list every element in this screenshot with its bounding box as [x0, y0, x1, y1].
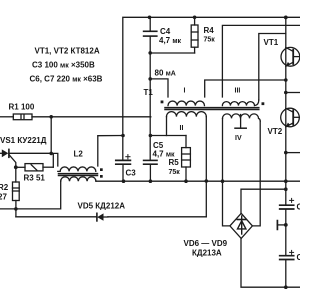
wire top rail	[123, 17, 300, 160]
node output tap	[284, 223, 288, 227]
svg-text:I: I	[184, 88, 186, 95]
svg-text:VT2: VT2	[268, 127, 283, 136]
resistor R1	[0, 114, 151, 120]
capacitor C6	[280, 205, 294, 255]
label C5 value	[153, 141, 176, 159]
capacitor C3	[116, 160, 131, 181]
node C5 bottom	[149, 179, 153, 183]
thyristor VS1	[0, 149, 51, 157]
svg-text:C4: C4	[160, 27, 171, 36]
svg-text:VT1: VT1	[264, 38, 279, 47]
node C4 top	[148, 15, 152, 19]
svg-text:R1 100: R1 100	[9, 103, 35, 112]
svg-text:VD6 — VD9: VD6 — VD9	[184, 239, 228, 248]
node winding II lead on output wire	[205, 179, 209, 183]
wire winding III right to rail	[259, 34, 286, 101]
label R2 value	[0, 183, 9, 202]
transistor VT1	[281, 47, 300, 66]
svg-text:C: C	[297, 203, 301, 212]
svg-text:C3 100 мк ×350В: C3 100 мк ×350В	[32, 61, 95, 70]
svg-text:C3: C3	[126, 169, 137, 178]
inductor L2 primary winding	[58, 167, 96, 171]
svg-text:VT1, VT2 КТ812А: VT1, VT2 КТ812А	[35, 47, 100, 56]
node C5 branch	[149, 134, 153, 138]
svg-text:VD5 КД212А: VD5 КД212А	[78, 201, 126, 210]
wire winding IV left lead to bridge	[223, 118, 230, 225]
svg-text:II: II	[180, 125, 184, 132]
wire winding II left lead	[166, 117, 168, 136]
transformer T1 winding III	[222, 100, 258, 106]
wire winding I feed	[150, 53, 168, 97]
node R5 bottom	[184, 179, 188, 183]
svg-text:R5: R5	[169, 158, 180, 167]
svg-text:R3 51: R3 51	[24, 173, 46, 182]
wire winding II right lead	[205, 117, 207, 217]
wire exit y92	[286, 92, 300, 94]
svg-text:75к: 75к	[169, 169, 181, 176]
wire thyristor gate	[9, 155, 16, 168]
svg-text:4,7 мк: 4,7 мк	[153, 149, 176, 158]
resistor R2	[13, 167, 20, 217]
svg-text:L2: L2	[74, 149, 84, 158]
node bottom rail C7	[284, 285, 288, 289]
wire C3 branch to L2	[98, 135, 123, 137]
svg-text:R4: R4	[204, 26, 215, 35]
svg-text:80 мА: 80 мА	[155, 69, 176, 78]
core L2	[59, 173, 98, 175]
svg-text:IV: IV	[235, 135, 242, 142]
wire winding I right to rail	[205, 80, 286, 97]
node C4 bottom	[148, 51, 152, 55]
node output wire at rail	[284, 179, 288, 183]
resistor R4	[191, 17, 198, 53]
inductor L2 secondary winding	[61, 177, 96, 181]
wire C4 to R4	[150, 52, 194, 54]
svg-text:R2: R2	[0, 183, 9, 192]
node C3 bottom	[122, 179, 126, 183]
node wire exit y92	[284, 91, 288, 95]
ground core tap under winding IV	[235, 115, 246, 129]
wire winding III left to right edge	[222, 25, 300, 97]
node R4 top	[193, 15, 197, 19]
notes text block	[30, 47, 103, 84]
svg-text:T1: T1	[144, 88, 154, 97]
wire R1 node down to thyristor node	[50, 117, 52, 154]
node R1 branch	[49, 115, 53, 119]
svg-text:VS1 КУ221Д: VS1 КУ221Д	[0, 136, 47, 145]
wire bridge plus output	[241, 189, 286, 213]
svg-text:27: 27	[0, 193, 7, 202]
node gate R2 R3	[14, 165, 18, 169]
wire VD5 line	[16, 216, 96, 218]
diode bridge VD6-VD9	[230, 213, 253, 238]
label C6 plus	[290, 198, 294, 202]
label C4 value	[159, 27, 182, 45]
svg-text:C6, C7 220 мк ×63В: C6, C7 220 мк ×63В	[30, 75, 103, 84]
terminal output tap	[277, 221, 285, 230]
resistor R3	[16, 154, 54, 171]
label R5 value	[169, 158, 181, 176]
node bridge plus at rail	[284, 187, 288, 191]
node C3 branch	[121, 134, 125, 138]
wire C4 lead down	[149, 79, 151, 160]
node VT2 emitter	[284, 151, 288, 155]
svg-text:75к: 75к	[204, 37, 216, 44]
diode VD5	[97, 213, 108, 221]
label C3 plus	[126, 155, 130, 159]
svg-text:4,7 мк: 4,7 мк	[159, 36, 182, 45]
transformer T1 winding I	[168, 101, 204, 106]
label VD6-VD9	[184, 239, 228, 257]
capacitor C5	[144, 160, 157, 181]
label C7 plus	[290, 250, 294, 254]
resistor R5	[182, 136, 191, 182]
wire thyristor node to L2 primary	[51, 153, 58, 166]
node winding IV lead on output wire	[221, 179, 225, 183]
wire winding IV right lead to bridge	[252, 121, 260, 226]
node L2 phase dot primary	[100, 168, 103, 171]
node R2 on return wire	[14, 207, 18, 211]
capacitor C7	[280, 256, 294, 288]
svg-text:КД213А: КД213А	[192, 248, 222, 257]
node T1 phase dot left	[161, 101, 164, 104]
capacitor C4	[144, 17, 157, 53]
node thyristor cathode wire	[49, 152, 53, 156]
wire C5 R5 branch	[150, 135, 186, 137]
label R4 value	[204, 26, 216, 44]
svg-text:C: C	[297, 253, 301, 262]
wire bridge minus to bottom rail	[241, 238, 300, 287]
transformer T1 winding IV	[223, 114, 261, 121]
node 80mA junction	[148, 77, 152, 81]
node rail top	[284, 16, 288, 20]
wire output line y181	[96, 180, 300, 182]
transformer T1 winding II	[167, 112, 207, 117]
node winding I wire at rail	[284, 78, 288, 82]
node L2 phase dot secondary	[100, 175, 103, 178]
wire exit y152	[286, 152, 300, 154]
svg-text:III: III	[235, 88, 241, 95]
node T1 phase dot right	[262, 102, 265, 105]
wire L2 primary right lead	[97, 136, 99, 166]
wire secondary return to left edge	[0, 181, 61, 209]
core T1	[165, 107, 259, 109]
transistor VT2	[281, 108, 300, 127]
wire main right rail	[285, 17, 287, 204]
